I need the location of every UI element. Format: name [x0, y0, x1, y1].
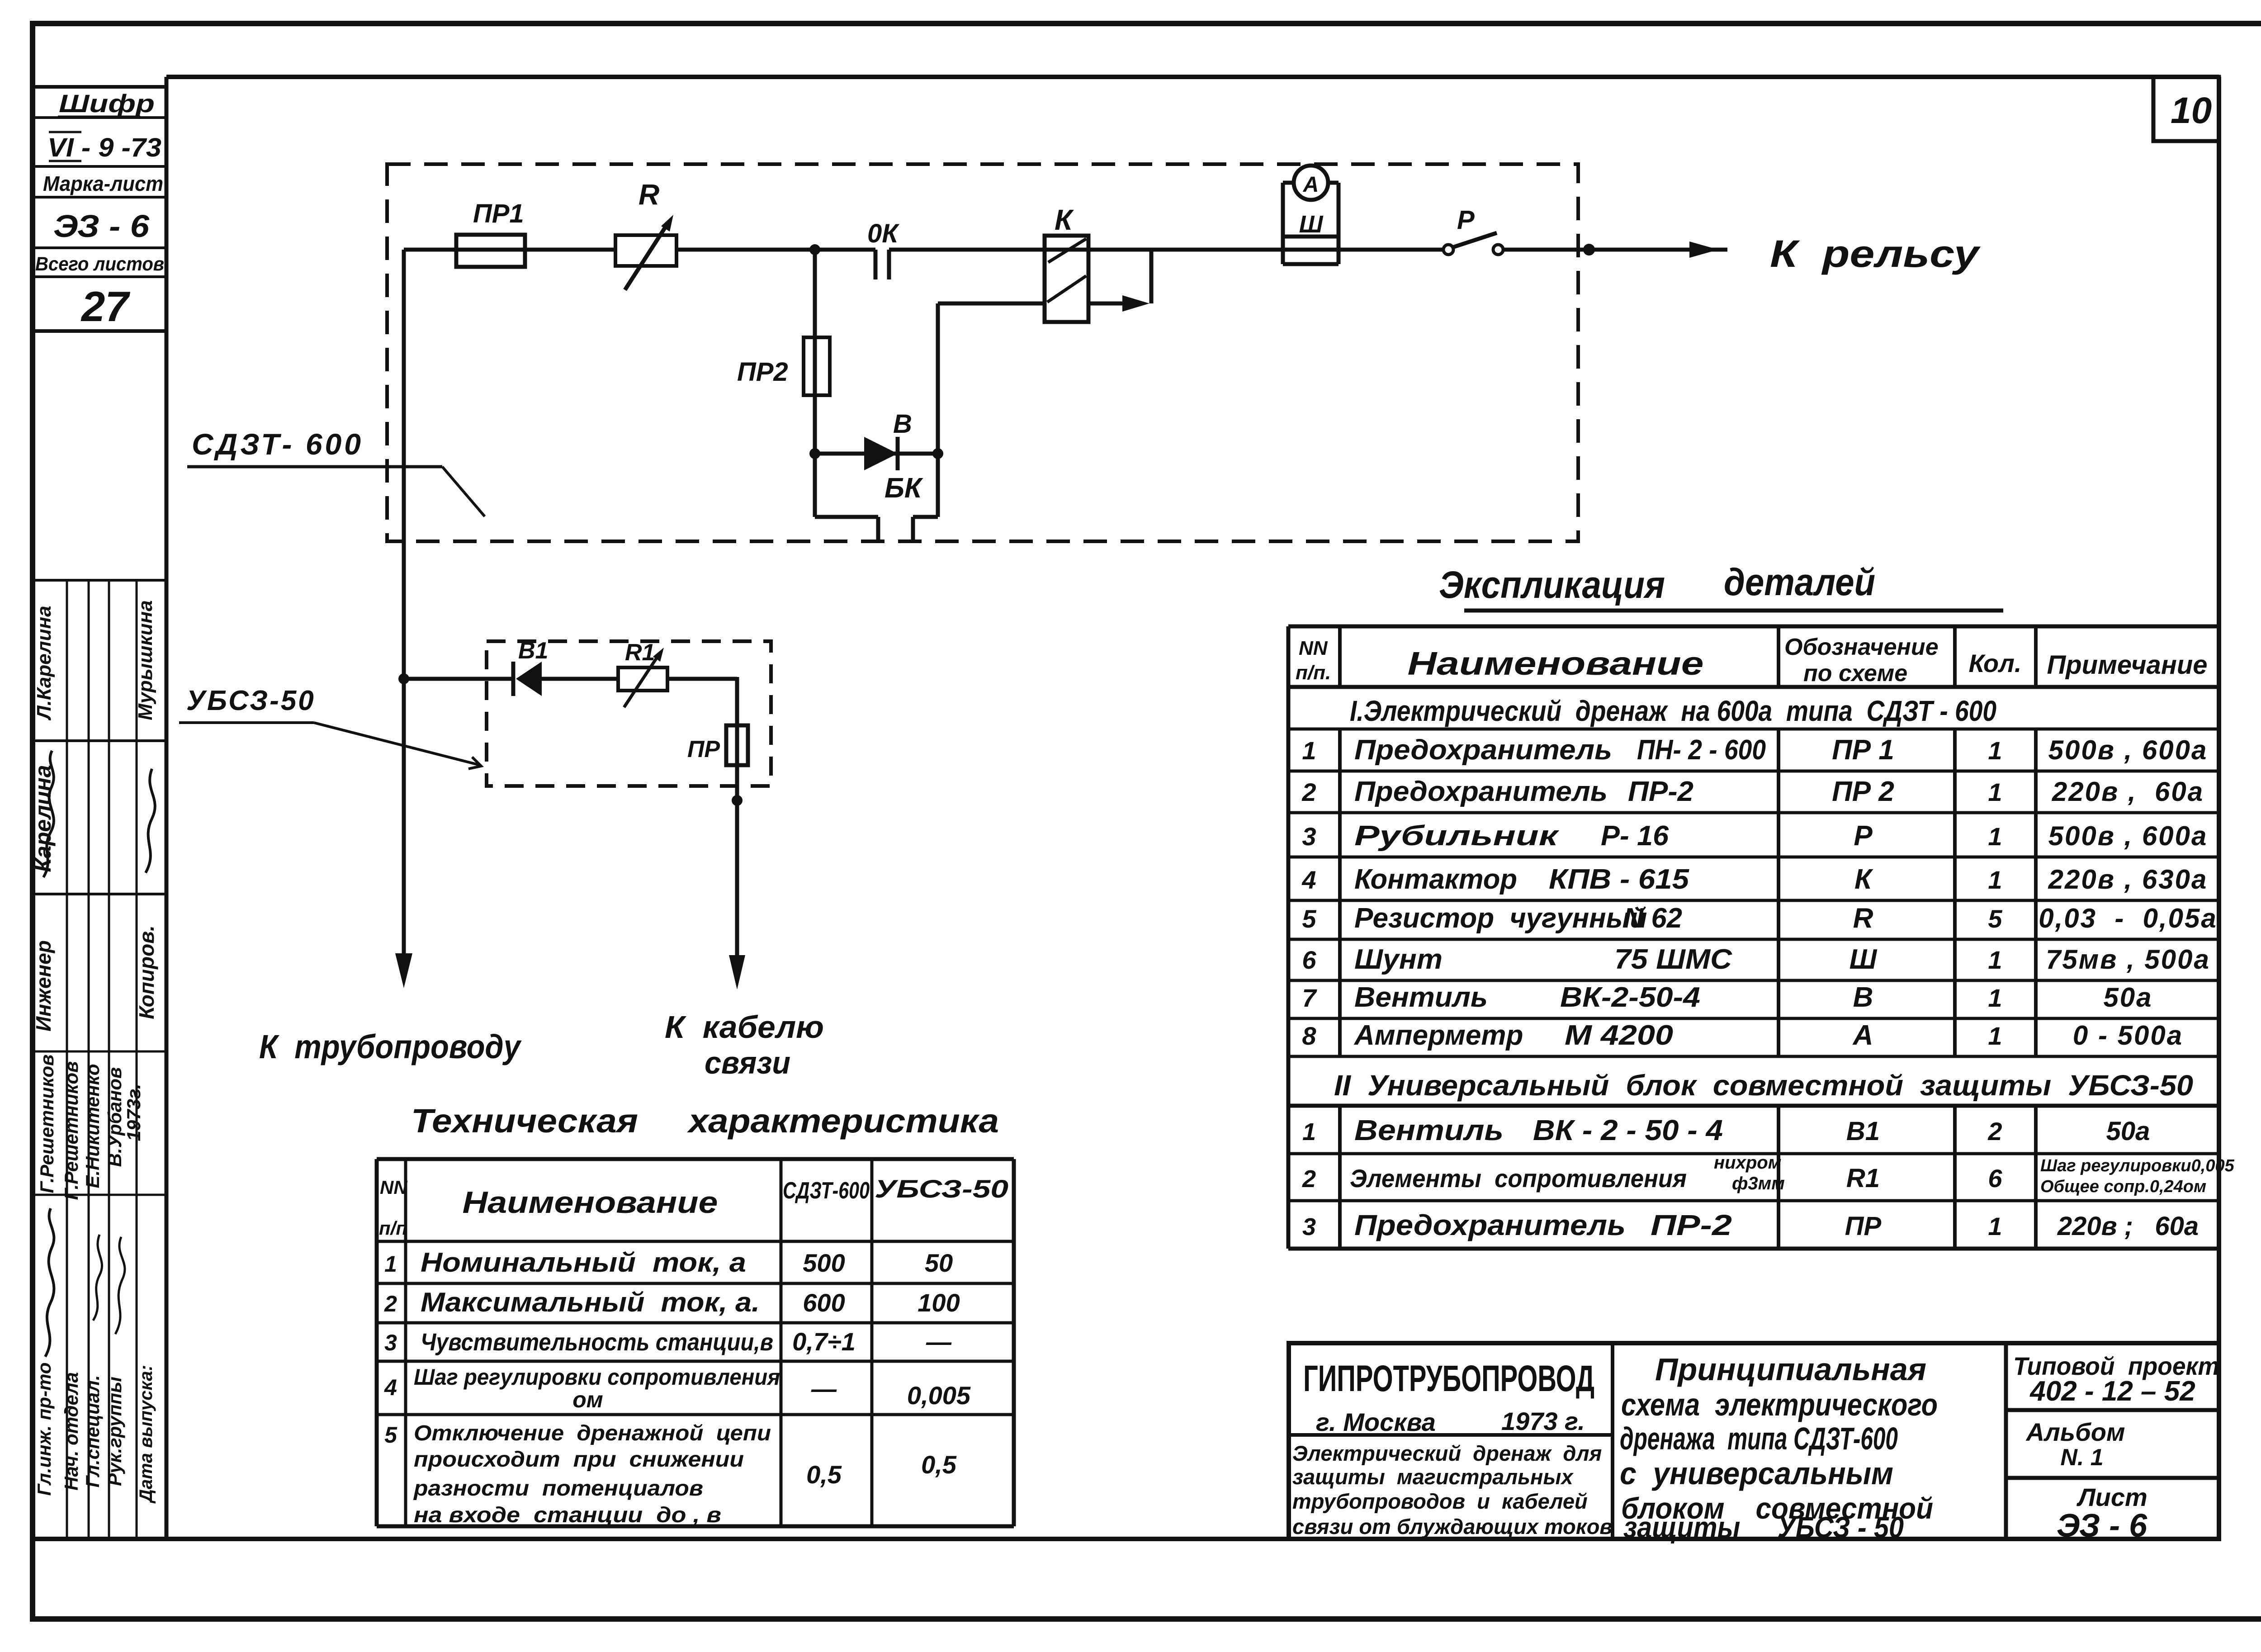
svg-text:ПР1: ПР1 — [473, 199, 524, 228]
svg-text:N. 1: N. 1 — [2060, 1444, 2103, 1471]
cipher row line 4 — [33, 246, 166, 249]
technical v-line 2 — [780, 1159, 783, 1526]
svg-text:1: 1 — [1988, 946, 2002, 974]
svg-text:1: 1 — [1988, 866, 2002, 894]
wire BK bottom left — [815, 515, 878, 519]
output arrowhead — [1689, 241, 1718, 258]
shunt Sh top edge left — [1283, 181, 1295, 185]
title block box — [1289, 1343, 2219, 1539]
svg-text:1: 1 — [1302, 736, 1316, 765]
svg-text:1: 1 — [1988, 1022, 2002, 1050]
shunt Sh bottom edge — [1283, 262, 1339, 266]
wire to pipeline — [402, 250, 406, 960]
technical h-line 6 — [377, 1524, 1014, 1529]
contactor arrowhead — [1122, 295, 1149, 312]
explication v-line x4502 b — [2034, 729, 2038, 1056]
wire UBSZ down — [735, 677, 739, 800]
svg-text:Карелина: Карелина — [30, 765, 56, 872]
signature squiggle col D — [115, 1237, 125, 1334]
svg-text:К рельсу: К рельсу — [1770, 232, 1981, 275]
svg-text:5: 5 — [1988, 904, 2002, 933]
svg-text:ПР-2: ПР-2 — [1628, 776, 1693, 807]
stamp line h 2325 — [33, 1051, 166, 1053]
svg-text:N 62: N 62 — [1623, 903, 1682, 934]
stamp col line d — [136, 580, 138, 1539]
svg-text:3: 3 — [1302, 1213, 1316, 1240]
VI underline — [49, 160, 81, 162]
technical h-line 5 — [377, 1413, 1014, 1416]
explication h-line 13 — [1288, 1199, 2219, 1202]
pipeline arrowhead — [395, 953, 412, 988]
svg-text:0 - 500а: 0 - 500а — [2073, 1020, 2183, 1051]
svg-text:Копиров.: Копиров. — [135, 925, 158, 1019]
svg-text:В1: В1 — [1846, 1117, 1880, 1146]
svg-text:0,5: 0,5 — [806, 1460, 842, 1489]
sheet number box 10 — [2153, 77, 2219, 141]
svg-text:Вентиль: Вентиль — [1354, 982, 1488, 1013]
diode V1 cathode bar — [511, 662, 516, 696]
svg-text:г. Москва: г. Москва — [1316, 1408, 1436, 1436]
explication v-line x2963 c — [1338, 1106, 1342, 1249]
wire contactor branch up — [936, 303, 940, 454]
contactor K hatch 2 — [1047, 276, 1086, 302]
wire BK down left — [813, 454, 817, 517]
svg-text:Е.Никитенко: Е.Никитенко — [82, 1064, 103, 1188]
shunt Sh divider — [1283, 235, 1339, 239]
explication v-line x4323 a — [1953, 626, 1957, 687]
svg-text:Л.Карелина: Л.Карелина — [33, 606, 55, 720]
svg-text:КПВ - 615: КПВ - 615 — [1549, 864, 1690, 895]
explication h-line 1 — [1288, 685, 2219, 689]
wire to cable — [735, 800, 739, 961]
svg-text:2: 2 — [1302, 1165, 1316, 1193]
wire BK down right — [936, 454, 940, 517]
svg-text:Гл.инж. пр-то: Гл.инж. пр-то — [33, 1362, 55, 1496]
title block right h-line 1 — [2006, 1408, 2219, 1412]
resistor R1 — [618, 667, 667, 691]
svg-text:Рук.группы: Рук.группы — [104, 1377, 125, 1486]
svg-text:Р: Р — [1457, 205, 1475, 235]
svg-text:Чувствительность станции,в: Чувствительность станции,в — [421, 1329, 773, 1356]
explication h-line 5 — [1288, 856, 2219, 859]
svg-text:220в , 60а: 220в , 60а — [2052, 776, 2204, 807]
diode V cathode bar — [896, 437, 900, 470]
svg-text:3: 3 — [384, 1330, 397, 1355]
fuse PR2 — [804, 337, 830, 395]
svg-text:Ш: Ш — [1299, 211, 1324, 238]
svg-text:5: 5 — [384, 1422, 397, 1448]
svg-text:по схеме: по схеме — [1803, 660, 1907, 686]
explication v-line x4502 c — [2034, 1106, 2038, 1249]
wire UBSZ segment 2 — [542, 677, 618, 681]
wire main segment 3 — [889, 248, 1444, 252]
wire PR2 branch vertical — [813, 250, 817, 454]
title block left h-line — [1289, 1433, 1613, 1437]
svg-text:0,03 - 0,05а: 0,03 - 0,05а — [2039, 903, 2218, 933]
svg-text:ГИПРОТРУБОПРОВОД: ГИПРОТРУБОПРОВОД — [1303, 1358, 1594, 1399]
wire UBSZ segment 3 — [667, 677, 737, 681]
svg-text:75 ШМС: 75 ШМС — [1614, 944, 1732, 975]
svg-text:1: 1 — [1988, 1212, 2002, 1240]
svg-text:—: — — [811, 1374, 837, 1403]
switch P left contact — [1443, 245, 1453, 255]
svg-text:п/п.: п/п. — [1296, 662, 1331, 684]
contactor K hatch 1 — [1048, 239, 1086, 262]
contact OK left tick — [874, 250, 878, 279]
svg-text:Шаг регулировки сопротивления: Шаг регулировки сопротивления — [414, 1364, 780, 1390]
svg-text:500: 500 — [803, 1249, 845, 1277]
node diode right — [932, 448, 943, 459]
switch P blade — [1452, 233, 1497, 247]
node cable tap — [732, 795, 743, 806]
svg-text:БК: БК — [885, 473, 923, 504]
svg-text:А: А — [1852, 1020, 1873, 1051]
svg-text:Г.Решетников: Г.Решетников — [36, 1054, 57, 1193]
diode V1 triangle — [516, 662, 542, 696]
svg-text:Наименование: Наименование — [463, 1185, 718, 1220]
svg-text:NN: NN — [1299, 637, 1328, 659]
svg-text:ПР: ПР — [1845, 1212, 1882, 1241]
svg-text:R1: R1 — [625, 639, 655, 666]
resistor R arrow line — [625, 222, 668, 290]
explication h-line 2 — [1288, 728, 2219, 731]
svg-text:50: 50 — [925, 1249, 953, 1277]
explication h-line 8 — [1288, 979, 2219, 982]
switch P right contact — [1493, 245, 1503, 255]
svg-text:Кол.: Кол. — [1969, 649, 2022, 677]
svg-text:схема электрического: схема электрического — [1621, 1387, 1938, 1422]
node diode left — [809, 448, 820, 459]
stamp col line c — [108, 580, 110, 1539]
svg-text:М 4200: М 4200 — [1565, 1020, 1673, 1051]
wire contactor out — [1088, 302, 1140, 306]
explication h-line 14 — [1288, 1247, 2219, 1251]
resistor R — [615, 235, 676, 266]
svg-text:10: 10 — [2171, 90, 2212, 131]
svg-text:1973г.: 1973г. — [123, 1084, 144, 1141]
svg-text:500в , 600а: 500в , 600а — [2048, 821, 2208, 851]
technical v-line 0 — [375, 1159, 379, 1526]
technical v-line 4 — [1012, 1159, 1016, 1526]
wire BK bottom right — [913, 515, 938, 519]
node UBSZ tap — [398, 673, 409, 684]
cable arrowhead — [729, 955, 745, 989]
svg-text:4: 4 — [384, 1375, 397, 1400]
technical h-line 3 — [377, 1321, 1014, 1325]
svg-text:ЭЗ - 6: ЭЗ - 6 — [53, 208, 150, 244]
svg-text:R1: R1 — [1846, 1164, 1880, 1193]
svg-text:500в , 600а: 500в , 600а — [2048, 735, 2208, 765]
svg-text:В1: В1 — [518, 638, 548, 664]
explication h-line 9 — [1288, 1017, 2219, 1020]
svg-text:К трубопроводу: К трубопроводу — [259, 1028, 522, 1065]
fuse PR — [726, 725, 748, 765]
svg-text:1: 1 — [1988, 778, 2002, 806]
svg-text:трубопроводов и кабелей: трубопроводов и кабелей — [1292, 1489, 1588, 1513]
shunt Sh right side — [1337, 183, 1341, 264]
node output — [1583, 244, 1595, 256]
svg-text:Техническая характеристика: Техническая характеристика — [411, 1102, 999, 1140]
inner frame bottom line — [33, 1537, 2219, 1541]
svg-text:7: 7 — [1302, 984, 1317, 1012]
svg-text:ВК - 2 - 50 - 4: ВК - 2 - 50 - 4 — [1533, 1114, 1723, 1146]
svg-text:NN: NN — [380, 1177, 408, 1198]
wire main segment 1 — [404, 248, 615, 252]
svg-text:А: А — [1303, 173, 1319, 197]
svg-text:ПР 1: ПР 1 — [1832, 734, 1894, 766]
fuse PR2 inner line — [813, 337, 817, 395]
svg-text:Шунт: Шунт — [1354, 944, 1443, 975]
svg-text:1: 1 — [1988, 984, 2002, 1012]
dashed box UBSZ-50 — [487, 641, 771, 786]
svg-text:Контактор: Контактор — [1354, 864, 1517, 895]
explication title underline — [1464, 609, 2003, 613]
diode V triangle — [864, 437, 898, 470]
explication h-line 12 — [1288, 1152, 2219, 1155]
svg-text:СДЗТ-600: СДЗТ-600 — [783, 1178, 870, 1204]
stamp line h 2642 — [33, 1194, 166, 1196]
svg-text:Р- 16: Р- 16 — [1601, 820, 1669, 852]
svg-text:6: 6 — [1988, 1164, 2002, 1193]
cipher row line 5 — [33, 275, 166, 278]
shunt Sh left side — [1281, 183, 1285, 264]
svg-text:УБСЗ-50: УБСЗ-50 — [186, 685, 316, 716]
svg-text:Элементы сопротивления: Элементы сопротивления — [1350, 1164, 1687, 1193]
svg-text:ПР 2: ПР 2 — [1832, 776, 1894, 807]
explication v-line x4323 c — [1953, 1106, 1957, 1249]
label UBSZ-50 underline — [179, 721, 314, 724]
svg-text:В: В — [893, 409, 912, 439]
svg-text:К: К — [1854, 864, 1873, 895]
svg-text:защиты магистральных: защиты магистральных — [1292, 1465, 1574, 1489]
leader UBSZ-50 — [314, 723, 480, 765]
svg-text:связи: связи — [705, 1045, 790, 1080]
svg-text:Наименование: Наименование — [1408, 646, 1704, 682]
technical v-line 3 — [870, 1159, 874, 1526]
svg-text:УБСЗ-50: УБСЗ-50 — [875, 1174, 1008, 1203]
explication h-line 11 — [1288, 1104, 2219, 1108]
explication h-line 3 — [1288, 770, 2219, 773]
wire contactor branch right — [938, 302, 1045, 306]
title block right h-line 2 — [2006, 1476, 2219, 1480]
resistor R1 arrowhead — [653, 648, 664, 662]
svg-text:Принципиальная: Принципиальная — [1655, 1352, 1926, 1387]
svg-text:Шифр: Шифр — [59, 89, 155, 118]
svg-text:50а: 50а — [2106, 1117, 2150, 1146]
signature squiggle col A upper — [43, 751, 54, 877]
title block v-line 2 — [2004, 1343, 2008, 1539]
technical h-line 1 — [377, 1240, 1014, 1243]
signature squiggle col E — [146, 769, 155, 873]
technical v-line 1 — [404, 1159, 407, 1526]
svg-text:3: 3 — [1302, 822, 1316, 851]
svg-text:R: R — [1853, 903, 1873, 934]
svg-text:Максимальный ток, а.: Максимальный ток, а. — [421, 1287, 760, 1317]
svg-text:Резистор чугунный: Резистор чугунный — [1354, 903, 1647, 934]
svg-text:Марка-лист: Марка-лист — [43, 172, 163, 195]
svg-text:I.Электрический дренаж на 60: I.Электрический дренаж на 600а типа СДЗТ… — [1350, 695, 1996, 727]
svg-text:ПР-2: ПР-2 — [1651, 1209, 1732, 1241]
svg-text:Гл.специал.: Гл.специал. — [82, 1375, 103, 1488]
wire main segment 4 — [1503, 248, 1727, 252]
explication v-line x3933 c — [1777, 1106, 1780, 1249]
VI overline — [49, 131, 81, 133]
svg-text:ПР2: ПР2 — [737, 357, 788, 387]
svg-text:Вентиль: Вентиль — [1354, 1114, 1504, 1146]
explication v-line x2963 b — [1338, 729, 1342, 1056]
contact BK right tick — [911, 517, 915, 541]
explication v-line left — [1287, 626, 1291, 1249]
contact OK right tick — [887, 250, 891, 279]
explication h-line 4 — [1288, 811, 2219, 814]
svg-text:разности потенциалов: разности потенциалов — [413, 1477, 703, 1501]
leader UBSZ-50 arrowhead — [468, 757, 481, 769]
explication h-line 10 — [1288, 1055, 2219, 1058]
svg-text:50а: 50а — [2103, 982, 2152, 1013]
svg-text:Шаг регулировки0,005: Шаг регулировки0,005 — [2040, 1156, 2235, 1175]
wire main segment 2 — [676, 248, 875, 252]
svg-text:ПН- 2 - 600: ПН- 2 - 600 — [1637, 734, 1766, 766]
svg-text:Р: Р — [1854, 820, 1873, 852]
wire UBSZ segment 1 — [404, 677, 513, 681]
explication v-line right — [2217, 626, 2221, 1249]
technical h-line 4 — [377, 1360, 1014, 1363]
technical h-line 2 — [377, 1282, 1014, 1285]
signature squiggle col A lower — [45, 1208, 54, 1357]
svg-text:В: В — [1853, 982, 1873, 1013]
explication h-line 7 — [1288, 938, 2219, 941]
svg-text:2: 2 — [1301, 778, 1316, 806]
svg-text:600: 600 — [803, 1288, 845, 1317]
svg-text:Обозначение: Обозначение — [1784, 634, 1939, 660]
svg-text:ВК-2-50-4: ВК-2-50-4 — [1560, 982, 1700, 1013]
contact BK left tick — [876, 517, 880, 541]
svg-text:1: 1 — [1302, 1118, 1316, 1146]
svg-text:Ш: Ш — [1849, 944, 1878, 975]
stamp line h 1977 — [33, 893, 166, 895]
explication h-line 0 — [1288, 625, 2219, 629]
svg-text:—: — — [926, 1327, 952, 1356]
svg-text:0,5: 0,5 — [921, 1450, 957, 1479]
svg-text:Мурышкина: Мурышкина — [134, 600, 156, 720]
svg-text:Отключение дренажной цепи: Отключение дренажной цепи — [414, 1421, 771, 1445]
stamp box top line — [33, 579, 166, 582]
label Shifr underline — [58, 116, 140, 118]
svg-text:Номинальный ток, а: Номинальный ток, а — [421, 1247, 746, 1278]
svg-text:5: 5 — [1302, 904, 1316, 933]
dashed box SDZT-600 — [387, 164, 1578, 541]
svg-text:Лист: Лист — [2076, 1483, 2147, 1511]
inner frame right line — [2217, 77, 2221, 1539]
fuse PR1 — [456, 235, 525, 267]
wire diode row — [815, 452, 938, 456]
svg-text:0К: 0К — [867, 219, 899, 248]
svg-text:ПР: ПР — [687, 736, 720, 762]
svg-text:К кабелю: К кабелю — [665, 1009, 824, 1045]
svg-text:на входе станции до , в: на входе станции до , в — [414, 1503, 721, 1527]
stamp col line a — [66, 580, 68, 1539]
svg-text:220в , 630а: 220в , 630а — [2048, 864, 2208, 895]
svg-text:0,005: 0,005 — [907, 1381, 971, 1410]
svg-text:ЭЗ - 6: ЭЗ - 6 — [2057, 1508, 2147, 1544]
cipher row line 3 — [33, 196, 166, 199]
svg-text:Дата выпуска:: Дата выпуска: — [136, 1365, 156, 1504]
shunt Sh top edge right — [1328, 181, 1339, 185]
svg-text:1: 1 — [1988, 736, 2002, 765]
explication v-line x4502 a — [2034, 626, 2038, 687]
svg-text:Электрический дренаж для: Электрический дренаж для — [1292, 1441, 1602, 1465]
svg-text:Альбом: Альбом — [2025, 1418, 2125, 1446]
svg-text:защиты УБСЗ - 50: защиты УБСЗ - 50 — [1623, 1510, 1904, 1544]
svg-text:100: 100 — [918, 1288, 960, 1317]
svg-text:2: 2 — [1987, 1117, 2002, 1146]
svg-text:8: 8 — [1302, 1022, 1316, 1050]
svg-text:нихром: нихром — [1714, 1153, 1781, 1173]
contactor K box — [1045, 236, 1088, 322]
svg-text:происходит при снижении: происходит при снижении — [414, 1448, 744, 1472]
svg-text:К: К — [1055, 204, 1074, 236]
svg-text:ф3мм: ф3мм — [1732, 1174, 1785, 1193]
cipher box — [33, 87, 166, 331]
svg-text:6: 6 — [1302, 946, 1316, 974]
svg-text:п/п: п/п — [379, 1217, 407, 1239]
svg-text:Нач. отдела: Нач. отдела — [61, 1372, 82, 1491]
wire contactor contact vertical — [1149, 250, 1154, 303]
svg-text:R: R — [639, 178, 659, 211]
svg-text:1973 г.: 1973 г. — [1501, 1407, 1585, 1435]
svg-text:ом: ом — [572, 1387, 603, 1412]
svg-text:2: 2 — [384, 1291, 397, 1316]
explication v-line x4323 b — [1953, 729, 1957, 1056]
svg-text:4: 4 — [1301, 866, 1316, 894]
svg-text:Г.Решетников: Г.Решетников — [61, 1061, 82, 1200]
svg-text:402 - 12 – 52: 402 - 12 – 52 — [2029, 1376, 2195, 1407]
explication h-line 6 — [1288, 899, 2219, 902]
svg-text:1: 1 — [384, 1251, 397, 1277]
explication v-line x2963 a — [1338, 626, 1342, 687]
svg-text:деталей: деталей — [1724, 561, 1875, 603]
svg-text:Примечание: Примечание — [2047, 650, 2207, 680]
svg-text:Инженер: Инженер — [32, 940, 55, 1032]
resistor R arrowhead — [661, 215, 673, 232]
svg-text:75мв , 500а: 75мв , 500а — [2046, 944, 2210, 975]
svg-text:Амперметр: Амперметр — [1353, 1020, 1523, 1051]
svg-text:с универсальным: с универсальным — [1620, 1456, 1893, 1491]
svg-text:В.Урбанов: В.Урбанов — [104, 1067, 125, 1167]
node junction top — [809, 244, 820, 255]
svg-text:Экспликация: Экспликация — [1439, 563, 1665, 606]
cipher row line 2 — [33, 165, 166, 168]
stamp col line b — [88, 580, 90, 1539]
label SDZT-600 underline — [187, 465, 442, 469]
svg-text:дренажа типа СДЗТ-600: дренажа типа СДЗТ-600 — [1620, 1421, 1898, 1456]
explication v-line x3933 b — [1777, 729, 1780, 1056]
stamp line h 1638 — [33, 739, 166, 742]
svg-text:27: 27 — [80, 283, 130, 330]
signature squiggle col C — [93, 1235, 102, 1321]
technical h-line 0 — [377, 1157, 1014, 1161]
title block v-line 1 — [1611, 1343, 1614, 1539]
svg-text:Предохранитель: Предохранитель — [1354, 1209, 1626, 1241]
svg-text:Рубильник: Рубильник — [1354, 820, 1559, 852]
inner frame left line — [165, 77, 169, 1539]
svg-text:0,7÷1: 0,7÷1 — [792, 1327, 856, 1356]
leader SDZT-600 — [442, 467, 485, 516]
svg-text:связи от блуждающих токов: связи от блуждающих токов — [1292, 1515, 1613, 1538]
svg-text:1: 1 — [1988, 822, 2002, 851]
svg-text:Предохранитель: Предохранитель — [1354, 776, 1608, 807]
resistor R1 arrow line — [624, 654, 659, 707]
